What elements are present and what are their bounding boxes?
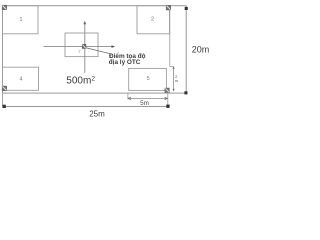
corner marker TL (point 1) — [2, 5, 7, 10]
extension line from marker 2 down — [169, 11, 171, 67]
left edge extension to 25m line — [2, 93, 4, 106]
corner marker TR (point 2) — [166, 5, 171, 10]
svg-text:3: 3 — [78, 50, 80, 54]
5m dimension line — [128, 97, 167, 99]
20m line endpoint square top (plot TR corner) — [185, 7, 188, 10]
5m dimension extension lines — [127, 93, 129, 99]
east axis (horizontal arrow) — [44, 46, 113, 48]
endpoint square left — [3, 105, 6, 108]
svg-text:4: 4 — [19, 77, 22, 83]
svg-text:20m: 20m — [192, 45, 210, 55]
subplot 2 (top-right) — [137, 6, 170, 34]
endpoint square right — [166, 105, 169, 108]
corner marker BL (point 4) — [2, 86, 7, 91]
north axis (vertical arrow) — [84, 22, 86, 73]
svg-text:địa lý OTC: địa lý OTC — [109, 59, 141, 66]
svg-text:25m: 25m — [89, 110, 105, 119]
svg-text:1: 1 — [19, 17, 22, 23]
svg-text:5: 5 — [147, 76, 150, 82]
subplot 5 (bottom-right) — [129, 68, 167, 90]
2m dimension line — [173, 67, 175, 91]
25m dimension line — [3, 105, 169, 107]
svg-text:2: 2 — [151, 17, 154, 23]
subplot 1 (top-left) — [3, 6, 39, 34]
corner marker BR (point 5) — [165, 88, 170, 93]
svg-text:500m2: 500m2 — [66, 75, 95, 86]
subplot 4 (bottom-left) — [3, 67, 39, 90]
20m line endpoint square bottom (plot BR corner) — [184, 91, 187, 94]
plot boundary 25m x 20m — [3, 6, 187, 93]
center point marker (OTC coordinate point) — [82, 44, 86, 48]
subplot 3 (center) — [65, 33, 98, 57]
leader line to annotation — [86, 48, 113, 55]
jog to 2m dimension — [170, 66, 174, 68]
